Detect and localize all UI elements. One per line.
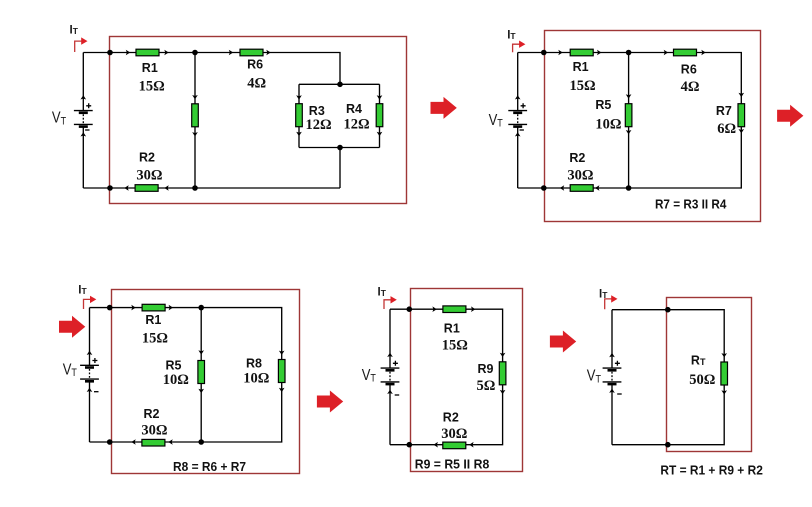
svg-text:R1: R1 <box>573 60 589 74</box>
svg-text:15Ω: 15Ω <box>442 338 468 354</box>
svg-text:10Ω: 10Ω <box>595 116 621 132</box>
svg-text:IT: IT <box>507 29 516 41</box>
svg-text:30Ω: 30Ω <box>141 422 167 438</box>
svg-text:R2: R2 <box>139 151 155 165</box>
svg-text:R6: R6 <box>247 57 263 71</box>
svg-text:15Ω: 15Ω <box>570 78 596 94</box>
svg-text:IT: IT <box>78 285 87 297</box>
svg-text:R9 = R5 II R8: R9 = R5 II R8 <box>415 457 490 471</box>
svg-text:15Ω: 15Ω <box>142 331 168 347</box>
svg-text:R5: R5 <box>166 359 182 373</box>
svg-text:10Ω: 10Ω <box>243 370 269 386</box>
svg-text:R2: R2 <box>144 407 160 421</box>
svg-text:R7: R7 <box>716 104 732 118</box>
svg-text:R9: R9 <box>478 362 494 376</box>
svg-text:5Ω: 5Ω <box>477 378 496 394</box>
svg-text:4Ω: 4Ω <box>247 76 266 92</box>
svg-text:30Ω: 30Ω <box>441 426 467 442</box>
svg-text:R2: R2 <box>443 410 459 424</box>
svg-text:30Ω: 30Ω <box>567 167 593 183</box>
svg-text:IT: IT <box>378 286 387 298</box>
svg-text:15Ω: 15Ω <box>139 79 165 95</box>
svg-text:R1: R1 <box>145 313 161 327</box>
svg-text:6Ω: 6Ω <box>717 121 736 137</box>
svg-text:R2: R2 <box>569 151 585 165</box>
svg-text:R6: R6 <box>681 63 697 77</box>
svg-text:12Ω: 12Ω <box>344 116 370 132</box>
svg-text:R8: R8 <box>246 356 262 370</box>
svg-text:R5: R5 <box>595 98 611 112</box>
svg-text:R8 = R6 + R7: R8 = R6 + R7 <box>173 460 246 474</box>
svg-text:50Ω: 50Ω <box>689 372 715 388</box>
svg-text:12Ω: 12Ω <box>305 117 331 133</box>
svg-text:4Ω: 4Ω <box>681 79 700 95</box>
svg-text:30Ω: 30Ω <box>136 168 162 184</box>
svg-text:R4: R4 <box>346 102 362 116</box>
svg-text:R1: R1 <box>444 321 460 335</box>
svg-text:R1: R1 <box>142 61 158 75</box>
svg-text:R7 = R3 II R4: R7 = R3 II R4 <box>655 197 727 211</box>
svg-text:RT = R1 + R9 + R2: RT = R1 + R9 + R2 <box>660 464 763 478</box>
svg-text:10Ω: 10Ω <box>163 372 189 388</box>
svg-text:R3: R3 <box>309 104 325 118</box>
svg-text:IT: IT <box>70 25 79 37</box>
